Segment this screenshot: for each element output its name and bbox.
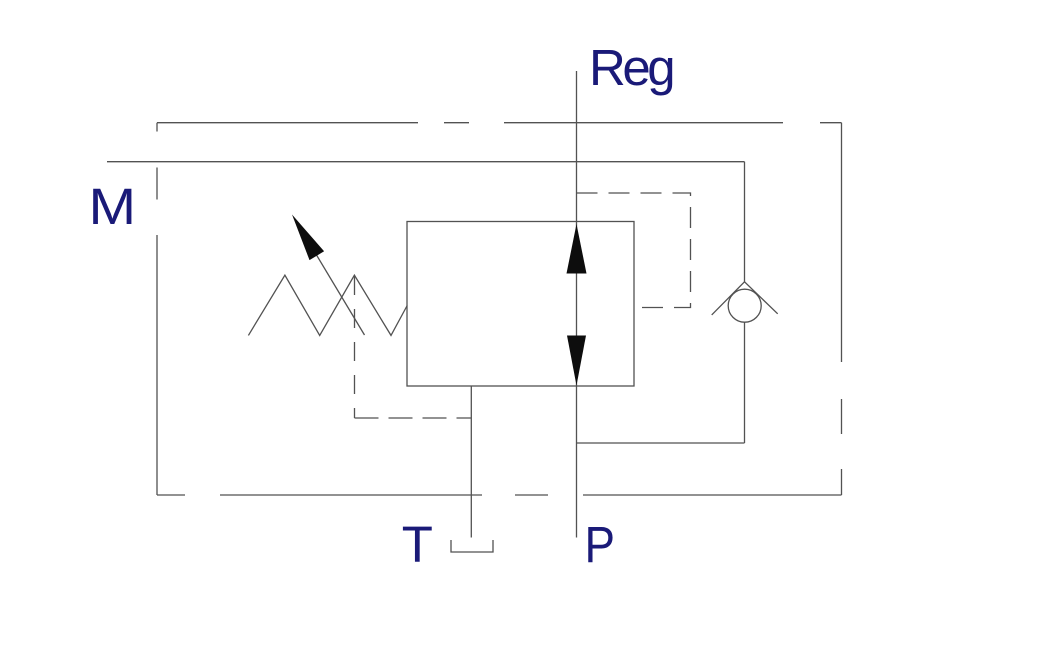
check valve upper line <box>744 162 746 282</box>
pilot line dashed right to Reg <box>577 193 691 308</box>
enclosure dashed boundary right <box>841 123 843 495</box>
enclosure dashed boundary left <box>156 123 158 495</box>
valve body envelope <box>407 222 634 387</box>
flow arrow up <box>567 224 587 274</box>
wire P branch horizontal <box>577 442 745 444</box>
check valve lower line <box>744 322 746 443</box>
drain line T vertical <box>470 386 472 538</box>
tank symbol <box>451 540 493 552</box>
wire M line horizontal <box>107 161 745 163</box>
svg-text:Reg: Reg <box>589 39 673 96</box>
enclosure dashed boundary top <box>157 122 842 124</box>
check valve ball circle <box>728 289 761 322</box>
pilot line dashed left vertical <box>354 276 356 418</box>
wire Reg-P vertical line <box>576 71 578 538</box>
flow arrow down <box>567 336 586 386</box>
check valve seat <box>712 282 778 315</box>
svg-text:T: T <box>402 516 433 573</box>
enclosure dashed boundary bottom <box>157 494 842 496</box>
spring zigzag <box>248 275 407 335</box>
adjustment arrow shaft <box>312 248 365 336</box>
svg-text:P: P <box>585 516 616 573</box>
adjustment arrow head <box>292 215 324 261</box>
pilot line dashed left horizontal <box>355 417 472 419</box>
svg-text:M: M <box>89 178 137 235</box>
